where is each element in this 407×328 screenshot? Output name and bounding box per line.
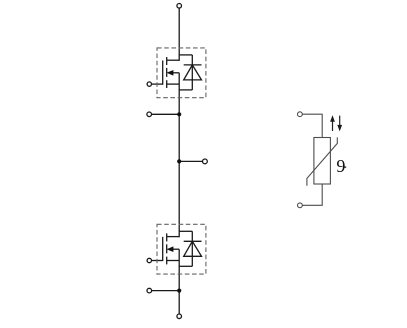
svg-text:9: 9: [336, 156, 345, 176]
